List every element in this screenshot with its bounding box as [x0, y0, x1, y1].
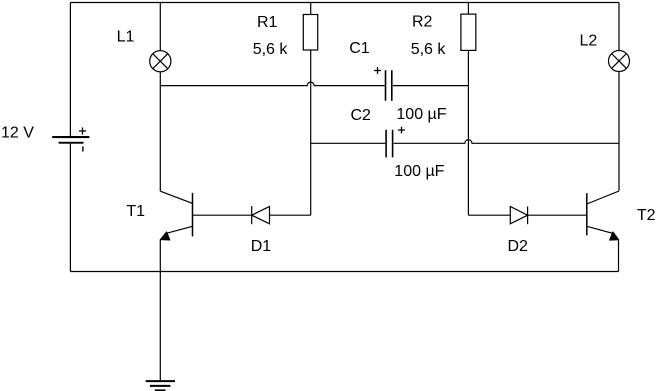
wire left rail upper (to battery +)	[69, 3, 71, 136]
transistor T2	[586, 193, 588, 235]
resistor R1	[303, 15, 317, 51]
svg-text:T2: T2	[637, 207, 656, 224]
resistor R2	[461, 14, 476, 50]
svg-text:D2: D2	[508, 238, 529, 255]
wire R2 down to D2 row (tee at C1 row, passes under hop at C2 row)	[467, 50, 469, 215]
wire T1 emitter to ground	[159, 240, 161, 382]
wire top rail	[70, 2, 619, 4]
wire L2 branch from top rail	[618, 3, 620, 51]
svg-text:5,6 k: 5,6 k	[253, 41, 289, 58]
battery B1 12V	[52, 136, 89, 144]
svg-text:R2: R2	[412, 13, 433, 30]
svg-text:D1: D1	[251, 238, 272, 255]
wire D2 to T2 base	[528, 214, 587, 216]
transistor T1	[192, 193, 194, 237]
wire T2 emitter to bottom rail	[618, 240, 620, 272]
svg-text:T1: T1	[126, 203, 145, 220]
wire R2 branch from top rail	[467, 3, 469, 15]
svg-text:L1: L1	[117, 28, 135, 45]
C2 plus sign	[398, 127, 405, 134]
wire C1 right plate to R2 branch	[393, 85, 469, 87]
wire R1 down to D1 row (passes under hop, tee at C2 row)	[310, 50, 312, 215]
wire L2 to T2 collector	[618, 71, 620, 190]
wire node L1/C1 row with hop over R1 wire	[160, 82, 384, 85]
svg-text:100 µF: 100 µF	[396, 106, 446, 123]
svg-text:R1: R1	[257, 14, 278, 31]
svg-text:C1: C1	[349, 40, 370, 57]
wire R2 bottom corner to D2	[468, 214, 510, 216]
svg-text:12 V: 12 V	[1, 124, 34, 141]
battery plus sign	[79, 127, 86, 134]
diode D2	[510, 207, 527, 224]
wire bottom rail	[70, 271, 618, 273]
wire R1 bottom corner to D1	[270, 214, 311, 216]
wire C2 row left (R1 tee to C2)	[311, 142, 386, 144]
wire L1 to T1 collector	[159, 72, 161, 192]
wire L1 branch from top rail	[159, 3, 161, 51]
capacitor C1	[386, 70, 392, 100]
wire C2 row right with hop over R2 wire	[394, 140, 619, 144]
diode D1	[252, 207, 270, 224]
ground	[146, 381, 175, 390]
wire D1 to T1 base	[193, 214, 252, 216]
wire left rail lower (from battery -)	[69, 144, 71, 272]
svg-text:L2: L2	[580, 32, 598, 49]
lamp L1	[150, 51, 171, 72]
battery minus tick	[82, 146, 84, 151]
svg-text:C2: C2	[351, 107, 372, 124]
wire R1 branch from top rail	[310, 3, 312, 15]
svg-text:100 µF: 100 µF	[394, 163, 444, 180]
capacitor C2	[386, 130, 393, 158]
svg-text:5,6 k: 5,6 k	[411, 41, 447, 58]
C1 plus sign	[374, 67, 381, 74]
lamp L2	[609, 51, 630, 72]
